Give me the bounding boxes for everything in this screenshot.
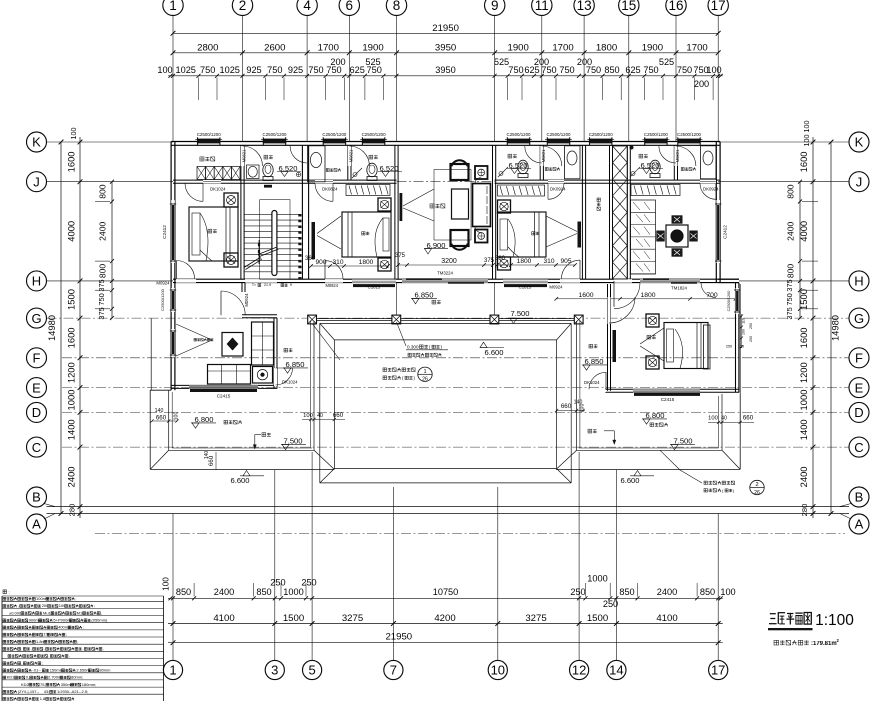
bedroom3 label [532, 232, 535, 235]
right terrace eaves outline [739, 394, 741, 469]
stair top door mark [264, 185, 272, 188]
right block south wall [605, 388, 739, 390]
svg-text:C2412: C2412 [162, 225, 167, 239]
svg-text:100: 100 [720, 587, 735, 597]
svg-text:;: ; [94, 603, 95, 608]
svg-text:1600: 1600 [578, 292, 593, 299]
svg-text:0,: 0, [26, 675, 29, 680]
svg-text:200: 200 [694, 79, 709, 89]
left terrace level 6.600 [243, 471, 250, 476]
door M0821 bath3 [542, 146, 562, 166]
svg-text:,: , [69, 653, 70, 658]
svg-text:C2500/1200: C2500/1200 [160, 288, 165, 311]
window C2500/1200 [323, 139, 345, 144]
door M0924 bedroom1 [177, 261, 195, 279]
svg-text:H: H [854, 274, 863, 289]
canopy band inner [334, 339, 556, 341]
svg-text:1900: 1900 [642, 42, 663, 53]
bottom main dimension row [168, 623, 723, 625]
svg-text:3200: 3200 [441, 258, 457, 265]
right eaves vertical below H [739, 284, 741, 394]
svg-text:M0924: M0924 [244, 293, 249, 307]
svg-text:1800: 1800 [517, 258, 532, 265]
axis line A [47, 513, 850, 515]
svg-text:,: , [101, 610, 102, 615]
dry zone label 3 [681, 168, 684, 171]
bottom overall dimension 21950 [168, 642, 723, 644]
left sub dimension column [111, 182, 113, 318]
kitchen window left wall [170, 330, 172, 356]
svg-text:K: K [32, 135, 41, 150]
svg-text:280: 280 [68, 504, 77, 517]
left eaves vertical below G [150, 319, 152, 391]
svg-text:2400: 2400 [66, 466, 77, 487]
svg-text:C: C [32, 440, 41, 455]
balcony detail callout [383, 368, 387, 372]
svg-text:180mm;: 180mm; [82, 682, 96, 687]
svg-text:100: 100 [174, 412, 180, 421]
svg-text:C2500/1200: C2500/1200 [677, 132, 701, 137]
right main dimension column [812, 137, 814, 518]
bedroom2 label [362, 232, 365, 235]
svg-text:F: F [855, 351, 863, 366]
svg-text:750: 750 [508, 65, 523, 75]
svg-text:9: 9 [290, 283, 292, 287]
svg-text:250: 250 [726, 345, 732, 349]
svg-text::179.81m: :179.81m [811, 641, 837, 647]
right room west wall [607, 284, 609, 391]
svg-text:750: 750 [559, 65, 574, 75]
svg-text:KD2:: KD2: [21, 682, 30, 687]
svg-text:250: 250 [270, 577, 285, 587]
svg-text:1800: 1800 [596, 42, 617, 53]
svg-text:660: 660 [333, 412, 344, 419]
dining table [666, 225, 688, 247]
dry area counter 1 [308, 146, 326, 182]
svg-text:C2412: C2412 [723, 225, 728, 239]
svg-text:D: D [854, 405, 863, 420]
guest room closet bar [613, 330, 617, 362]
left terrace miter corners [150, 450, 169, 469]
svg-text:800: 800 [786, 264, 796, 279]
guest room dresser [704, 325, 711, 369]
bath4 door arc [659, 146, 676, 163]
bath1 door arc [290, 146, 307, 163]
svg-text:1500: 1500 [66, 289, 77, 310]
living room TV bar [400, 193, 403, 221]
window C1815 bedroom2 [352, 279, 396, 281]
svg-text:100 100: 100 100 [802, 121, 811, 147]
svg-text:21950: 21950 [385, 632, 412, 643]
bedroom2 nightstand top [378, 198, 391, 211]
svg-text:40: 40 [721, 416, 727, 422]
svg-text:3950: 3950 [435, 65, 455, 75]
interior wall axis 8 living west [394, 145, 396, 279]
svg-text:M0821: M0821 [348, 149, 353, 162]
svg-text:C2500/1200: C2500/1200 [197, 132, 221, 137]
svg-text:17: 17 [711, 0, 726, 13]
svg-text:M0924: M0924 [549, 285, 563, 290]
title underline [768, 628, 813, 630]
svg-text:200: 200 [749, 336, 753, 342]
svg-text:380: 380 [495, 256, 506, 262]
door M0924 bedroom3 [562, 260, 581, 279]
canopy band outer [320, 322, 571, 324]
svg-text:140: 140 [155, 408, 164, 414]
svg-text:C2500/1200: C2500/1200 [507, 132, 531, 137]
bedroom3 nightstand bottom [498, 257, 511, 270]
svg-text:80mm: 80mm [99, 668, 111, 673]
svg-text:DK1024: DK1024 [584, 380, 600, 385]
svg-text:750: 750 [200, 65, 215, 75]
right eaves top edge [719, 393, 740, 395]
living room armchair bottom [451, 230, 469, 246]
kitchen door DK1024 [276, 368, 293, 385]
svg-text:,: , [21, 660, 22, 665]
sliding door TM1824 right room [640, 279, 700, 281]
svg-text:200: 200 [534, 57, 549, 67]
axis line K [47, 141, 174, 143]
svg-text:310: 310 [543, 258, 554, 265]
svg-text:3275: 3275 [525, 613, 546, 624]
svg-text:4000: 4000 [66, 221, 77, 242]
svg-text:625: 625 [350, 65, 365, 75]
svg-text:21.9: 21.9 [264, 283, 271, 287]
svg-text:DK0824: DK0824 [322, 187, 338, 192]
svg-text:M0821: M0821 [541, 149, 546, 162]
living room label 起居室 [430, 204, 434, 208]
window C2500/1200 [263, 139, 285, 144]
bottom sub dimension row [168, 597, 723, 599]
svg-text:;: ; [75, 596, 76, 601]
svg-text:140: 140 [204, 451, 210, 460]
svg-text:525: 525 [494, 57, 509, 67]
svg-text:C2415: C2415 [217, 394, 231, 399]
living room sofa [473, 184, 491, 227]
notes row [3, 690, 6, 693]
guest room nightstand bottom [646, 356, 659, 369]
svg-text:C2500/1200: C2500/1200 [547, 132, 571, 137]
svg-text:C2500/1200: C2500/1200 [589, 132, 613, 137]
svg-text:1000: 1000 [283, 587, 303, 597]
svg-text:6: 6 [346, 0, 354, 13]
left terrace eaves outline [149, 390, 151, 469]
svg-text:4100: 4100 [213, 613, 234, 624]
svg-text:75,: 75, [40, 682, 46, 687]
shaft wall [609, 145, 611, 279]
level 6.600 courtyard [480, 342, 487, 347]
left terrace label 露台休闲 [224, 420, 228, 424]
svg-text:3950: 3950 [435, 42, 456, 53]
shaft top black dot [630, 146, 634, 150]
svg-text:625: 625 [625, 65, 640, 75]
svg-text:C2500/1200: C2500/1200 [322, 132, 346, 137]
svg-text:5: 5 [308, 663, 315, 678]
right bubble A [849, 514, 869, 534]
svg-text:12: 12 [572, 663, 586, 678]
svg-text:850: 850 [604, 65, 619, 75]
svg-text:525: 525 [365, 57, 380, 67]
svg-text:26: 26 [422, 377, 428, 383]
left bubble A [27, 514, 47, 534]
svg-text:1900: 1900 [508, 42, 529, 53]
dry zone label 2 [545, 168, 548, 171]
stair break line [244, 258, 260, 268]
svg-text:,: , [103, 646, 104, 651]
bath3 label 客卫 [508, 154, 512, 158]
svg-text:M0821: M0821 [675, 149, 680, 162]
left terrace railing [168, 390, 170, 450]
svg-text:7.500: 7.500 [510, 309, 529, 318]
svg-text:;: ; [42, 660, 43, 665]
svg-text:925: 925 [246, 65, 261, 75]
svg-text:C: C [854, 440, 863, 455]
top main dimension row [173, 52, 718, 54]
door M0821 bath2 [349, 146, 369, 166]
axis line J [47, 181, 174, 183]
svg-text:375: 375 [785, 307, 794, 319]
bedroom2 J door arc [315, 183, 333, 201]
svg-text:800: 800 [786, 184, 796, 199]
axis line D [62, 411, 849, 413]
guest room open V [640, 328, 664, 344]
svg-text:850: 850 [176, 587, 191, 597]
svg-text:14980: 14980 [46, 315, 57, 341]
svg-text:TM1824: TM1824 [671, 286, 687, 291]
kitchen label [194, 339, 197, 342]
svg-text:J: J [33, 174, 40, 189]
window C2500/1200 [198, 139, 220, 144]
svg-text:C2500/1200: C2500/1200 [362, 132, 386, 137]
bedroom1 label 卧房 [208, 229, 212, 233]
right block window segment on east wall [736, 288, 739, 314]
svg-text:M0821: M0821 [242, 149, 247, 162]
column stub axis 9/10 [493, 283, 495, 315]
left railing label [262, 433, 266, 437]
courtyard miter diagonals [320, 323, 335, 340]
svg-text:H: H [32, 274, 41, 289]
svg-text:1: 1 [423, 369, 426, 375]
svg-text:,: , [21, 646, 22, 651]
living room coffee table [452, 189, 469, 219]
bath3 shower [498, 167, 508, 177]
sliding door TM3224 living room [402, 279, 488, 281]
svg-text:1/J930--A21--2.5;: 1/J930--A21--2.5; [57, 689, 88, 694]
right terrace miter corners [556, 450, 577, 469]
column stub axis 8 [395, 283, 397, 315]
svg-text:40: 40 [317, 413, 323, 419]
svg-text:850: 850 [256, 587, 271, 597]
shaft with cross bracing [613, 146, 628, 279]
svg-text:2400: 2400 [786, 222, 796, 241]
svg-text:,: , [44, 646, 45, 651]
svg-text:10: 10 [491, 663, 505, 678]
bedroom2 bed [342, 212, 391, 257]
svg-text:1: 1 [169, 0, 177, 13]
svg-text:4200: 4200 [434, 613, 455, 624]
svg-text:750: 750 [267, 65, 282, 75]
notes row [8, 655, 11, 658]
left sub extension lines [95, 201, 110, 203]
kitchen tall cabinet [252, 322, 274, 365]
right sub dimension column [799, 182, 801, 318]
svg-text:,: , [82, 646, 83, 651]
svg-text:2600: 2600 [264, 42, 285, 53]
svg-text:2400: 2400 [798, 466, 809, 487]
bedroom1 nightstand top [224, 193, 238, 207]
bedroom4 J door arc [700, 183, 716, 199]
right block jog wall H to east [718, 278, 739, 280]
notes row [3, 633, 6, 636]
notes title [3, 590, 7, 594]
kitchen block east wall [273, 318, 275, 389]
window C2500/1200 [547, 139, 569, 144]
bath4 toilet [650, 160, 660, 174]
right axis bubbles [849, 132, 869, 152]
svg-text:13: 13 [577, 0, 592, 13]
top axis stems [172, 16, 174, 143]
svg-text:2400: 2400 [98, 222, 108, 241]
door M0924 kitchen [220, 291, 222, 315]
svg-text:17: 17 [711, 663, 725, 678]
svg-text:C2415: C2415 [661, 397, 675, 402]
svg-text:E: E [32, 380, 41, 395]
svg-text:DK1024: DK1024 [210, 187, 226, 192]
bedroom3 nightstand top [498, 200, 511, 213]
svg-text:100: 100 [742, 329, 746, 335]
svg-text:1600: 1600 [798, 327, 809, 348]
svg-text:DK0924: DK0924 [703, 187, 719, 192]
window C2415 right [633, 389, 700, 391]
svg-text:2400: 2400 [214, 587, 234, 597]
svg-text:360: 360 [305, 256, 316, 262]
svg-text:250: 250 [749, 323, 753, 329]
svg-text:200: 200 [577, 57, 592, 67]
living room side table top [475, 166, 488, 179]
notes row [3, 605, 6, 608]
bath4 shower [630, 167, 640, 177]
svg-text:80mm;: 80mm; [71, 675, 83, 680]
svg-text:375: 375 [395, 253, 406, 259]
bedroom2 open V symbol [317, 216, 341, 234]
svg-text:375: 375 [97, 279, 106, 291]
svg-text:1,8: 1,8 [40, 696, 46, 701]
top sub dimension row [168, 75, 723, 77]
kitchen block south wall [171, 384, 277, 386]
dry counter bath4 [701, 146, 717, 179]
svg-text:750: 750 [308, 65, 323, 75]
notes row [3, 640, 6, 643]
svg-text:TM3224: TM3224 [437, 271, 453, 276]
svg-text:200: 200 [330, 57, 345, 67]
storage room label 储物间 [597, 198, 600, 201]
interior wall storage west [581, 145, 583, 279]
svg-text:14980: 14980 [830, 315, 841, 341]
axis line E [62, 387, 849, 389]
svg-text:660: 660 [156, 415, 167, 422]
notes row [3, 662, 6, 665]
svg-text:-01--: -01-- [32, 668, 41, 673]
svg-text:1200: 1200 [798, 362, 809, 383]
svg-text:;: ; [83, 625, 84, 630]
window C2500/1200 left wall [170, 289, 172, 311]
bottom axis bubbles [163, 660, 182, 679]
svg-text:250: 250 [603, 599, 618, 609]
notes row [3, 648, 6, 651]
svg-text:4: 4 [303, 0, 311, 13]
svg-text:(050mm): (050mm) [91, 617, 108, 622]
svg-text:850: 850 [700, 587, 715, 597]
bedroom2 closet bar [312, 222, 316, 259]
window C1815 bedroom3 [503, 279, 548, 281]
notes row [3, 669, 6, 672]
svg-text:11: 11 [535, 0, 549, 13]
interior wall axis 4 [301, 145, 303, 279]
kitchen stove [253, 367, 273, 384]
right terrace railing [721, 394, 723, 450]
bedroom2 nightstand bottom [378, 258, 391, 271]
svg-text:375: 375 [785, 279, 794, 291]
bath1 floor drain [296, 172, 300, 176]
svg-text:C2500/1200: C2500/1200 [263, 132, 287, 137]
svg-text:800: 800 [98, 264, 108, 279]
svg-text:700: 700 [706, 292, 718, 299]
svg-text:1700: 1700 [318, 42, 339, 53]
svg-text:6.600: 6.600 [620, 476, 639, 485]
terrace callout leader [660, 450, 680, 470]
svg-text:1400: 1400 [66, 419, 77, 440]
bath1 toilet [263, 163, 273, 177]
svg-text:;: ; [66, 632, 67, 637]
svg-text:3275: 3275 [342, 613, 363, 624]
svg-text:9: 9 [491, 0, 499, 13]
svg-text:,: , [31, 646, 32, 651]
dining room door arc at H [701, 283, 716, 298]
svg-text:100: 100 [738, 345, 744, 349]
corridor label top middle [432, 300, 436, 304]
svg-text:16: 16 [668, 0, 683, 13]
top axis bubbles [163, 0, 183, 16]
door M0821 cloakroom [243, 146, 263, 166]
svg-text:110: 110 [742, 318, 746, 324]
svg-text:C2500/1200: C2500/1200 [727, 291, 731, 312]
svg-text:KD1:: KD1: [7, 675, 16, 680]
svg-text:1400: 1400 [798, 419, 809, 440]
svg-text:0.300: 0.300 [407, 345, 419, 350]
svg-text:2: 2 [755, 482, 758, 488]
svg-text:1000: 1000 [66, 390, 77, 411]
stair balusters [298, 214, 301, 217]
svg-text:750: 750 [785, 293, 794, 305]
notes row [3, 626, 6, 629]
svg-text:525: 525 [659, 57, 674, 67]
window C2500/1200 [590, 139, 612, 144]
bedroom3 closet bar [578, 222, 582, 248]
svg-text:1900: 1900 [362, 42, 383, 53]
detail bubble 1/26 [418, 367, 432, 381]
window C2412 on left wall [170, 203, 172, 262]
right room dim row 1600 1800 700 [556, 298, 735, 300]
guest room label 客房 [647, 335, 651, 339]
detail leader line [313, 324, 341, 360]
bath1 label 客卫 [264, 155, 268, 159]
svg-text:1700: 1700 [552, 42, 573, 53]
bath1 sink [247, 165, 260, 179]
svg-text:925: 925 [288, 65, 303, 75]
svg-text:100: 100 [303, 413, 313, 419]
left main dimension column [79, 137, 81, 518]
svg-text:DK1024: DK1024 [282, 380, 298, 385]
